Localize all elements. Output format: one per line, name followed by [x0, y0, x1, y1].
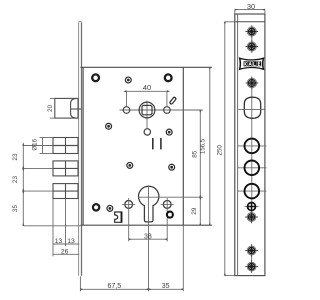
ring hole bottom-left: [93, 204, 99, 210]
svg-text:13: 13: [67, 238, 75, 245]
bottom extension faceplate: [79, 276, 81, 291]
pin 3 centerline: [23, 190, 53, 192]
svg-text:20: 20: [47, 104, 54, 112]
follower side circle left: [123, 107, 130, 114]
follower side circle right: [164, 107, 171, 114]
ring hole top-left: [92, 74, 99, 81]
svg-text:250: 250: [216, 145, 223, 156]
pin 1 centerline: [23, 145, 53, 147]
dimension Ø16: [40, 138, 54, 154]
dimension line 85/29: [199, 110, 201, 225]
arrows 23/23/35: [22, 142, 24, 226]
ring hole top-right: [165, 74, 172, 81]
svg-text:26: 26: [61, 249, 69, 256]
bottom extension body right: [182, 225, 184, 291]
svg-text:23: 23: [12, 176, 19, 184]
lever tick (diagonal mark): [169, 97, 176, 105]
screw F bottom-left: [107, 205, 113, 211]
dimension 38: [129, 238, 168, 240]
screw B mid-left: [106, 123, 112, 129]
extension lines 13/13: [53, 199, 66, 257]
dimension column 23 / 23 / 35: [23, 146, 80, 226]
svg-text:23: 23: [12, 153, 19, 161]
bold screw hole: [245, 203, 259, 211]
follower crosshair vertical: [146, 101, 148, 120]
svg-text:40: 40: [143, 83, 151, 92]
dimension 20 (latch height): [50, 98, 55, 118]
svg-text:38: 38: [144, 233, 152, 240]
dimension line 67,5 / 35: [80, 288, 183, 290]
dimension 30: [235, 10, 265, 14]
dimension 250: [225, 22, 235, 276]
screw 3: [246, 77, 259, 90]
screw D center: [127, 162, 133, 168]
svg-text:30: 30: [247, 2, 255, 11]
screw 4: [245, 211, 258, 224]
vertical bar right: [160, 138, 162, 149]
screw A top: [125, 77, 131, 83]
small circle below follower: [144, 129, 150, 135]
cylinder horizontal centerline: [138, 196, 203, 198]
link line follower to circle: [146, 119, 148, 129]
svg-text:85: 85: [191, 150, 198, 158]
screw E mid-right: [169, 164, 175, 170]
faceplate top cap: [79, 21, 82, 23]
deadbolt pin 1 (Ø16): [53, 138, 78, 154]
svg-text:29: 29: [191, 207, 198, 215]
strip centerline segments: [251, 27, 253, 272]
screw 1: [246, 25, 259, 38]
svg-text:Ø16: Ø16: [31, 138, 38, 150]
bolt hole 1: [237, 139, 266, 154]
svg-text:35: 35: [12, 205, 19, 213]
dimension line 13/13: [53, 243, 79, 245]
svg-text:67,5: 67,5: [107, 283, 121, 290]
deadbolt pin 2: [53, 161, 78, 176]
fixing hole right (crosshair): [161, 198, 174, 241]
svg-text:156,5: 156,5: [200, 138, 206, 154]
dimension line 156,5: [209, 67, 211, 225]
follower centerline horizontal: [120, 109, 203, 111]
pin 2 centerline: [23, 167, 53, 169]
KALE logo: [239, 57, 265, 70]
euro cylinder profile: [138, 186, 158, 222]
svg-text:35: 35: [162, 283, 170, 290]
faceplate (side view, left edge line): [78, 22, 80, 276]
dimension line 26: [53, 253, 79, 255]
strip outline: [235, 14, 265, 276]
strip top cap line: [235, 21, 265, 23]
screw 5: [245, 244, 258, 257]
screw C right: [166, 129, 172, 135]
deadbolt pin 3: [53, 184, 78, 199]
bold ring bottom-right: [167, 212, 173, 218]
faceplate (side view, right edge line): [81, 22, 83, 276]
retainer clip: [115, 212, 122, 223]
cylinder vertical centerline + extension: [148, 185, 150, 291]
follower (handle spindle): [139, 102, 155, 118]
latch hole: [244, 97, 260, 118]
latch hole centerline: [238, 108, 264, 110]
bolt hole 2: [237, 161, 266, 176]
screw 2: [246, 40, 259, 53]
lock body outline: [80, 67, 212, 225]
svg-text:13: 13: [55, 238, 63, 245]
dimension 40: [127, 91, 167, 106]
vertical bar left: [152, 138, 154, 149]
screw 6: [245, 260, 258, 273]
fixing hole left (crosshair): [122, 198, 135, 241]
strip inner line: [237, 14, 239, 276]
bolt hole 3: [237, 184, 266, 199]
latch bolt (side view): [55, 98, 82, 118]
